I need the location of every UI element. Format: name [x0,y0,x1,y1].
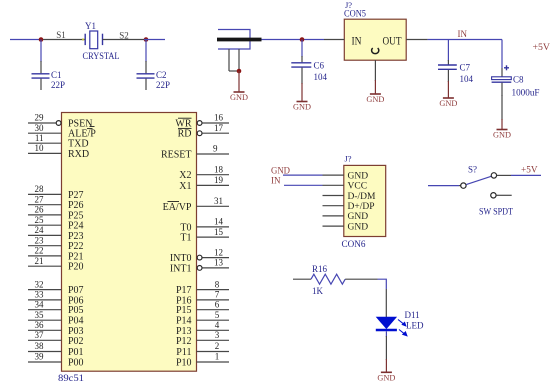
wire S1 segment [43,39,85,41]
wire C8 corner [501,40,503,69]
LED D11 [376,317,407,336]
svg-text:5: 5 [215,310,220,320]
svg-text:D11: D11 [405,310,420,320]
svg-text:29: 29 [35,113,45,123]
svg-text:32: 32 [35,279,44,289]
svg-text:GND: GND [348,212,369,222]
U1 pin 32 P07 [28,279,84,296]
node junction C6 [300,37,305,42]
svg-text:GND: GND [366,94,384,104]
svg-text:X1: X1 [179,181,191,192]
U1 pin 26 P25 [28,205,84,222]
U1 pin 35 P04 [28,310,84,327]
wire IN to CON6 pin2 [284,184,323,186]
capacitor C6 [291,56,311,84]
svg-text:35: 35 [35,310,45,320]
U1 pin 5 P14 [176,310,229,327]
svg-text:17: 17 [214,123,224,133]
svg-text:2: 2 [215,341,220,351]
U1 pin 25 P24 [28,215,84,232]
svg-text:22P: 22P [51,80,65,90]
svg-text:IN: IN [458,29,468,39]
svg-text:22P: 22P [156,80,170,90]
wire LED to gnd [385,331,387,360]
U1 pin 14 T0 [180,217,229,234]
svg-text:GND: GND [271,166,290,176]
U1 pin 4 P13 [176,320,229,337]
wire to switch common [428,185,459,187]
capacitor C8 plus sign [504,65,509,70]
svg-text:C2: C2 [156,70,167,80]
svg-text:C6: C6 [314,61,325,71]
IC U1 89c51 body [62,113,197,372]
svg-text:8: 8 [215,279,220,289]
U1 pin 15 T1 [180,227,229,244]
CON5 pin OUT stub [406,39,427,41]
wire C7 drop [447,40,449,62]
ground CON5 [366,80,384,104]
svg-text:P11: P11 [176,347,191,358]
svg-text:S?: S? [468,164,477,174]
svg-text:11: 11 [35,133,44,143]
U1 pin 6 P15 [176,299,229,316]
svg-text:36: 36 [35,320,45,330]
svg-text:C8: C8 [513,75,524,85]
U1 pin 19 X1 [179,175,229,192]
svg-text:27: 27 [35,194,45,204]
svg-text:RESET: RESET [161,150,192,161]
svg-text:GND: GND [348,222,369,232]
svg-text:10: 10 [35,143,45,153]
U1 pin 30 ALE/P [28,123,96,140]
wire switch to +5V [511,174,541,176]
svg-text:INT1: INT1 [170,263,192,274]
U1 pin 17 RD [178,123,229,140]
svg-text:C7: C7 [460,63,471,73]
U1 pin 9 RESET [161,144,229,161]
svg-text:OUT: OUT [383,33,403,47]
U1 pin 37 P02 [28,330,84,347]
svg-text:LED: LED [406,321,424,331]
wire GND to CON6 pin1 [283,174,323,176]
crystal Y1 [85,31,102,49]
svg-text:Y1: Y1 [85,21,96,31]
power jack connector [217,30,262,50]
svg-text:GND: GND [348,171,369,181]
ground LED [377,359,395,383]
svg-text:1K: 1K [312,286,324,296]
svg-text:30: 30 [35,123,45,133]
wire C6 drop [301,40,303,58]
svg-text:+5V: +5V [533,43,551,53]
svg-text:P20: P20 [68,262,84,273]
U1 pin 2 P11 [176,341,229,358]
svg-text:104: 104 [314,72,328,82]
U1 pin 33 P06 [28,290,84,307]
CON5 gnd notch symbol [372,48,379,54]
wire R16 to LED [345,279,386,317]
svg-text:GND: GND [493,130,511,140]
ground C8 [493,119,511,140]
svg-text:6: 6 [215,299,220,309]
svg-text:SW SPDT: SW SPDT [479,208,513,218]
U1 pin 3 P12 [176,330,229,347]
svg-text:19: 19 [214,175,224,185]
wire C1 drop [40,40,42,63]
svg-text:38: 38 [35,341,45,351]
capacitor C8 [492,68,512,96]
U1 pin 29 PSEN [28,113,95,130]
U1 pin 34 P05 [28,299,84,316]
svg-text:34: 34 [35,299,45,309]
svg-text:EA/VP: EA/VP [163,202,192,213]
svg-text:28: 28 [35,184,45,194]
wire jack to CON5 [262,39,325,41]
svg-text:3: 3 [215,330,220,340]
capacitor C2 [137,61,155,90]
U1 pin 18 X2 [179,164,229,181]
U1 pin 36 P03 [28,320,84,337]
svg-text:T1: T1 [180,233,191,244]
CON6 pin 4 D+/DP [323,202,375,212]
connector CON6 J? body [344,165,386,236]
svg-text:R16: R16 [312,264,328,274]
U1 pin 23 P22 [28,235,84,252]
U1 pin 24 P23 [28,225,84,242]
svg-text:15: 15 [214,227,224,237]
svg-text:P00: P00 [68,358,84,369]
CON6 pin 5 GND [323,212,369,222]
ground jack [230,71,248,102]
U1 pin 11 TXD [28,133,89,150]
svg-text:GND: GND [439,98,457,108]
wire XTAL right [144,39,165,41]
U1 pin 28 P27 [28,184,84,201]
svg-text:21: 21 [35,256,44,266]
node junction C1 [39,37,44,42]
U1 pin 38 P01 [28,341,84,358]
svg-text:S1: S1 [56,30,66,40]
svg-text:26: 26 [35,205,45,215]
node junction C2 [144,37,149,42]
wire S2 segment [103,39,145,41]
svg-text:IN: IN [352,33,362,47]
svg-text:25: 25 [35,215,45,225]
U1 pin 16 WR [175,113,229,130]
svg-text:J?: J? [345,154,352,164]
svg-text:1: 1 [215,352,220,362]
CON6 pin 6 GND [323,222,369,232]
svg-text:CON6: CON6 [342,240,366,250]
wire C8 to gnd [501,95,503,120]
svg-text:+5V: +5V [521,166,538,176]
svg-text:GND: GND [293,102,311,112]
U1 pin 13 INT1 [170,258,229,275]
ground C7 [439,81,457,108]
svg-text:16: 16 [214,113,224,123]
node jack gnd junction [237,69,242,74]
U1 pin 1 P10 [176,352,229,369]
switch S? SPDT [459,173,512,198]
CON5 pin IN stub [324,39,344,41]
svg-text:CRYSTAL: CRYSTAL [83,52,120,62]
svg-text:13: 13 [214,258,224,268]
svg-text:GND: GND [377,373,395,383]
wire C2 drop [145,40,147,63]
svg-text:89c51: 89c51 [58,374,84,384]
svg-text:14: 14 [214,217,224,227]
svg-text:IN: IN [271,176,281,186]
capacitor C7 [438,60,457,82]
svg-text:P05: P05 [68,305,84,316]
svg-text:33: 33 [35,290,45,300]
svg-text:D-/DM: D-/DM [348,192,377,202]
U1 pin 21 P20 [28,256,84,273]
U1 pin 39 P00 [28,352,84,369]
CON6 pin 3 D-/DM [323,192,377,202]
svg-text:7: 7 [215,290,220,300]
svg-text:22: 22 [35,246,44,256]
svg-text:39: 39 [35,352,45,362]
svg-text:9: 9 [213,144,218,154]
wire OUT rail [428,39,502,41]
svg-text:23: 23 [35,235,45,245]
wire R16 lead left [293,278,311,280]
connector CON5 J? body [344,19,406,60]
U1 pin 8 P17 [176,279,229,296]
svg-text:12: 12 [214,247,223,257]
svg-text:D+/DP: D+/DP [348,202,375,212]
svg-text:RXD: RXD [68,149,89,160]
svg-text:C1: C1 [51,70,62,80]
svg-text:P10: P10 [176,358,192,369]
power jack pins [229,49,239,71]
svg-text:S2: S2 [119,31,129,41]
capacitor C1 [32,61,50,90]
svg-text:24: 24 [35,225,45,235]
svg-text:CON5: CON5 [344,9,366,19]
svg-text:P02: P02 [68,336,84,347]
CON5 pin GND stub [374,60,376,81]
U1 pin 7 P16 [176,290,229,307]
svg-text:4: 4 [215,320,220,330]
U1 pin 12 INT0 [170,247,229,264]
svg-text:X2: X2 [179,170,191,181]
U1 pin 22 P21 [28,246,84,263]
svg-text:GND: GND [230,92,248,102]
ground C6 [293,83,311,112]
svg-text:31: 31 [214,196,223,206]
svg-text:104: 104 [460,74,474,84]
resistor R16 [311,274,345,284]
CON6 pin 1 GND [323,171,369,181]
svg-text:37: 37 [35,330,45,340]
U1 pin 31 EA/VP [163,196,229,213]
svg-text:VCC: VCC [348,182,368,192]
U1 pin 10 RXD [28,143,89,160]
svg-text:P15: P15 [176,305,192,316]
svg-text:P01: P01 [68,347,84,358]
svg-text:RD: RD [178,129,192,140]
CON6 pin 2 VCC [323,182,368,192]
svg-text:1000uF: 1000uF [512,88,540,98]
svg-text:P12: P12 [176,336,192,347]
svg-text:18: 18 [214,164,224,174]
wire XTAL left [10,39,43,41]
U1 pin 27 P26 [28,194,84,211]
